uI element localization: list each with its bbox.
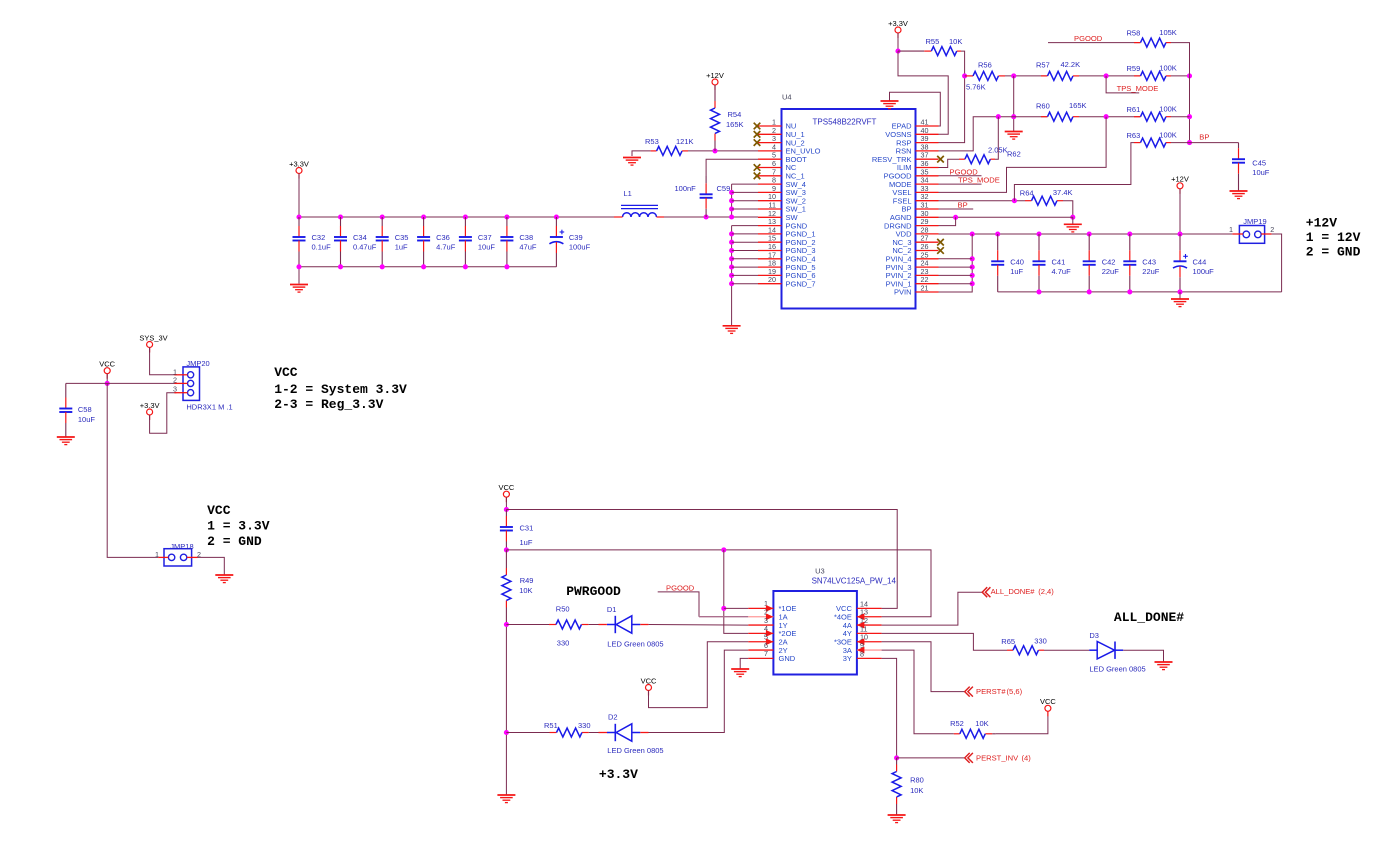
inductor L1 bbox=[614, 205, 664, 217]
svg-text:PGND_7: PGND_7 bbox=[786, 279, 816, 288]
JMP19 pin2 stub bbox=[1261, 233, 1271, 235]
wire PGND bus to pin13 bbox=[732, 225, 758, 227]
U4 pin 33 VSEL stub bbox=[916, 191, 939, 193]
U3 pin 8 3Y stub bbox=[857, 657, 882, 659]
ground (R53) bbox=[623, 158, 641, 166]
svg-text:10K: 10K bbox=[910, 786, 923, 795]
wire R58 to BP rail bbox=[1171, 43, 1190, 76]
capacitor C58 bbox=[59, 383, 72, 436]
svg-text:R62: R62 bbox=[1007, 150, 1021, 159]
U4 pin 1 NU stub bbox=[758, 125, 782, 127]
wire PWRGOOD node to R51 bbox=[506, 732, 549, 734]
svg-text:100K: 100K bbox=[1159, 131, 1177, 140]
U4 pin 26 NC_2 stub bbox=[916, 250, 939, 252]
diode D1 LED bbox=[607, 616, 640, 633]
node VDD bus/C41 bbox=[1036, 231, 1041, 236]
wire PVIN riser to pin23 bbox=[939, 274, 973, 276]
U3 pin 4 input arrow bbox=[766, 630, 774, 637]
node gnd bus x=1180 bbox=[1177, 289, 1182, 294]
svg-text:C36: C36 bbox=[436, 233, 450, 242]
ground (D3) bbox=[1155, 662, 1173, 670]
node R62 top bbox=[996, 114, 1001, 119]
wire PGND bus to pin17 bbox=[732, 258, 758, 260]
wire AGND to gnd node bbox=[939, 216, 1073, 218]
ground (R56/RSN) bbox=[1005, 132, 1023, 140]
svg-text:(2,4): (2,4) bbox=[1038, 587, 1054, 596]
svg-text:4.7uF: 4.7uF bbox=[1052, 267, 1072, 276]
ground (R64/AGND) bbox=[1064, 224, 1082, 232]
svg-text:R60: R60 bbox=[1036, 102, 1050, 111]
wire VCC down to rail bbox=[505, 497, 507, 509]
node PGND bus pin16 bbox=[729, 248, 734, 253]
no-connect X on U4 pin 2 bbox=[754, 131, 761, 138]
wire PVIN riser to pin24 bbox=[939, 266, 973, 268]
svg-text:C58: C58 bbox=[78, 405, 92, 414]
U4 pin 4 EN_UVLO stub bbox=[758, 150, 782, 152]
node PGND bus pin18 bbox=[729, 265, 734, 270]
U3 pin 13 *4OE stub bbox=[857, 616, 882, 618]
svg-text:D1: D1 bbox=[607, 605, 617, 614]
ground (R80) bbox=[888, 815, 906, 823]
svg-text:C34: C34 bbox=[353, 233, 367, 242]
wire VCC row to JMP20 pin2 bbox=[66, 382, 177, 384]
svg-text:R63: R63 bbox=[1127, 131, 1141, 140]
svg-text:100K: 100K bbox=[1159, 64, 1177, 73]
svg-text:7: 7 bbox=[764, 649, 768, 658]
U4 pin 40 VOSNS stub bbox=[916, 133, 939, 135]
svg-text:1 = 12V: 1 = 12V bbox=[1306, 230, 1361, 245]
svg-text:330: 330 bbox=[557, 639, 570, 648]
node gnd bus/C37 bottom bbox=[463, 264, 468, 269]
svg-text:PGOOD: PGOOD bbox=[1074, 34, 1103, 43]
svg-text:1: 1 bbox=[1229, 225, 1233, 234]
svg-text:TPS_MODE: TPS_MODE bbox=[1117, 84, 1159, 93]
svg-text:VCC: VCC bbox=[207, 503, 231, 518]
wire R51 to D2 bbox=[589, 732, 599, 734]
power VCC (U3 top) bbox=[498, 483, 514, 502]
wire R55 to RSP bbox=[939, 51, 965, 143]
U3 pin 1 *1OE stub bbox=[748, 607, 773, 609]
U4 pin 15 PGND_2 stub bbox=[758, 241, 782, 243]
node R57/R59/TPS_MODE bbox=[1104, 73, 1109, 78]
svg-text:C38: C38 bbox=[519, 233, 533, 242]
svg-text:100uF: 100uF bbox=[569, 243, 591, 252]
U3 pin 13 input arrow bbox=[857, 613, 865, 620]
U4 pin 13 PGND stub bbox=[758, 225, 782, 227]
ground (EPAD) bbox=[881, 101, 899, 109]
diode D3 LED bbox=[1089, 642, 1123, 659]
svg-text:42.2K: 42.2K bbox=[1061, 60, 1081, 69]
svg-text:D3: D3 bbox=[1089, 631, 1099, 640]
node PVIN riser pin23 bbox=[970, 273, 975, 278]
no-connect X on U4 pin 3 bbox=[754, 139, 761, 146]
node gnd rail/C31 bbox=[504, 547, 509, 552]
wire PWRGOOD node to R50 bbox=[506, 624, 549, 626]
svg-text:100nF: 100nF bbox=[675, 184, 697, 193]
wire OE branch to pin1/pin4 bbox=[724, 550, 749, 634]
svg-text:R80: R80 bbox=[910, 776, 924, 785]
svg-text:GND: GND bbox=[779, 654, 796, 663]
node PVIN riser pin22 bbox=[970, 281, 975, 286]
wire cap bank ground bus bbox=[299, 267, 556, 284]
node SW bus pin9 bbox=[729, 190, 734, 195]
resistor R65 bbox=[1007, 646, 1044, 655]
U4 pin 36 ILIM stub bbox=[916, 167, 939, 169]
svg-text:330: 330 bbox=[1034, 637, 1047, 646]
svg-text:4.7uF: 4.7uF bbox=[436, 243, 456, 252]
wire pin11 4Y to R65 bbox=[882, 633, 1007, 650]
node R54/EN_UVLO bbox=[712, 148, 717, 153]
wire PGND bus to pin20 bbox=[732, 283, 758, 285]
U3 pin 9 3A stub bbox=[857, 649, 882, 651]
resistor R49 bbox=[502, 550, 511, 625]
node R61/BP rail bbox=[1187, 114, 1192, 119]
U4 pin 23 PVIN_2 stub bbox=[916, 274, 939, 276]
svg-text:VCC: VCC bbox=[99, 360, 115, 369]
svg-text:0.47uF: 0.47uF bbox=[353, 243, 377, 252]
U4 pin 8 SW_4 stub bbox=[758, 183, 782, 185]
node VDD bus/PVIN riser bbox=[970, 231, 975, 236]
svg-text:21: 21 bbox=[921, 284, 929, 293]
svg-text:VCC: VCC bbox=[641, 676, 657, 685]
U3 pin 9 input arrow bbox=[857, 647, 865, 654]
svg-text:R65: R65 bbox=[1001, 637, 1015, 646]
wire DRGND to AGND bbox=[939, 217, 956, 225]
IC U4 TPS548B22RVFT body bbox=[782, 109, 916, 309]
U3 pin 2 input arrow bbox=[766, 613, 774, 620]
U4 pin 19 PGND_6 stub bbox=[758, 274, 782, 276]
wire PGND bus vertical bbox=[731, 226, 733, 326]
svg-text:C40: C40 bbox=[1010, 258, 1024, 267]
wire L1 to SW pin (U4 pin12) bbox=[664, 216, 758, 218]
wire OE rail bbox=[506, 550, 931, 617]
ground (input caps) bbox=[1171, 299, 1189, 307]
svg-text:R56: R56 bbox=[978, 61, 992, 70]
svg-text:HDR3X1 M .1: HDR3X1 M .1 bbox=[186, 403, 232, 412]
no-connect X on U4 pin 7 bbox=[754, 173, 761, 180]
svg-text:105K: 105K bbox=[1159, 28, 1177, 37]
wire SW bus vertical bbox=[731, 184, 733, 217]
U3 pin 14 VCC stub bbox=[857, 607, 882, 609]
U4 pin 41 EPAD stub bbox=[916, 125, 939, 127]
JMP20 pin3 stub bbox=[174, 392, 187, 394]
svg-text:10K: 10K bbox=[975, 719, 988, 728]
svg-text:C59: C59 bbox=[717, 184, 731, 193]
resistor R55 bbox=[898, 47, 961, 56]
svg-text:ALL_DONE#: ALL_DONE# bbox=[1114, 610, 1184, 625]
D2 anode lead bbox=[640, 732, 648, 734]
resistor R59 bbox=[1134, 71, 1171, 80]
wire SW bus to pin9 bbox=[732, 191, 758, 193]
ground (JMP18) bbox=[215, 575, 233, 583]
node R60/R61/VSEL bbox=[1104, 114, 1109, 119]
ground (LED return) bbox=[497, 795, 515, 803]
node gnd bus x=1039 bbox=[1036, 289, 1041, 294]
svg-text:JMP20: JMP20 bbox=[186, 359, 209, 368]
U4 pin 39 RSP stub bbox=[916, 142, 939, 144]
U4 pin 38 RSN stub bbox=[916, 150, 939, 152]
svg-text:LED Green 0805: LED Green 0805 bbox=[607, 640, 663, 649]
svg-text:165K: 165K bbox=[1069, 101, 1087, 110]
U3 pin 1 input arrow bbox=[766, 605, 774, 612]
node bus/C35 top bbox=[380, 214, 385, 219]
svg-text:37.4K: 37.4K bbox=[1053, 188, 1073, 197]
wire branch to pin1 bbox=[724, 607, 749, 609]
svg-text:1uF: 1uF bbox=[520, 538, 533, 547]
connector JMP18 body bbox=[164, 549, 192, 566]
wire R53 to EN_UVLO bbox=[688, 150, 758, 152]
wire EPAD to ground bbox=[890, 92, 941, 126]
U3 pin 3 1Y stub bbox=[748, 624, 773, 626]
wire pin9 3A to R52 bbox=[882, 650, 954, 734]
svg-text:121K: 121K bbox=[676, 137, 694, 146]
wire R62 to gnd row bbox=[995, 117, 998, 160]
node FSEL/R64/R63 bbox=[1012, 198, 1017, 203]
svg-text:BP: BP bbox=[1199, 132, 1209, 141]
U3 pin 6 2Y stub bbox=[748, 649, 773, 651]
capacitor C32 bbox=[293, 217, 306, 267]
U4 pin 5 BOOT stub bbox=[758, 158, 782, 160]
svg-text:R59: R59 bbox=[1127, 64, 1141, 73]
node pin1 branch bbox=[721, 606, 726, 611]
resistor R60 bbox=[1041, 112, 1079, 121]
wire PGND bus to pin14 bbox=[732, 233, 758, 235]
resistor R53 bbox=[651, 146, 688, 155]
svg-text:1uF: 1uF bbox=[395, 243, 408, 252]
svg-text:PERST#: PERST# bbox=[976, 687, 1006, 696]
U3 pin 7 GND stub bbox=[748, 657, 773, 659]
U3 pin 5 2A stub bbox=[748, 641, 773, 643]
U3 pin 5 input arrow bbox=[766, 638, 774, 645]
wire PVIN riser to pin22 bbox=[939, 283, 973, 285]
svg-text:JMP18: JMP18 bbox=[170, 542, 193, 551]
wire +3.3V to JMP20 pin3 bbox=[150, 393, 177, 434]
resistor R58 bbox=[1134, 38, 1171, 47]
svg-text:VCC: VCC bbox=[1040, 697, 1056, 706]
U4 pin 7 NC_1 stub bbox=[758, 175, 782, 177]
wire BP net label (pin31) bbox=[939, 208, 974, 210]
node bus/C34 top bbox=[338, 214, 343, 219]
connector JMP20 body bbox=[183, 367, 200, 401]
node R56/R57/gnd bbox=[1011, 73, 1016, 78]
diode D2 LED bbox=[607, 724, 640, 741]
svg-text:2-3 = Reg_3.3V: 2-3 = Reg_3.3V bbox=[274, 397, 383, 412]
wire PGOOD net label (pin35) bbox=[939, 175, 982, 177]
node SW bus pin10 bbox=[729, 198, 734, 203]
svg-text:JMP19: JMP19 bbox=[1243, 217, 1266, 226]
svg-text:+12V: +12V bbox=[1171, 175, 1189, 184]
connector JMP19 body bbox=[1239, 226, 1264, 244]
wire pin12 4A to ALL_DONE# bbox=[882, 592, 982, 625]
resistor R64 bbox=[1025, 196, 1063, 205]
wire PERST_INV net bbox=[897, 757, 965, 759]
offpage ALL_DONE# chevron bbox=[982, 587, 990, 597]
svg-text:+12V: +12V bbox=[706, 71, 724, 80]
U4 pin 17 PGND_4 stub bbox=[758, 258, 782, 260]
wire PGOOD net label (U3) bbox=[658, 592, 699, 617]
node bus/C39 top bbox=[554, 214, 559, 219]
svg-text:1-2 = System 3.3V: 1-2 = System 3.3V bbox=[274, 382, 407, 397]
svg-text:+3.3V: +3.3V bbox=[888, 19, 908, 28]
node VCC rail/C31 bbox=[504, 507, 509, 512]
wire pin10 *3OE to PERST# bbox=[882, 642, 965, 692]
node PGND bus pin17 bbox=[729, 256, 734, 261]
svg-text:1 = 3.3V: 1 = 3.3V bbox=[207, 519, 270, 534]
ground (C58) bbox=[57, 437, 75, 445]
wire RSN to gnd row bbox=[939, 117, 1048, 151]
wire input cap ground bus bbox=[998, 291, 1282, 293]
JMP18 pin2 stub bbox=[187, 556, 198, 558]
wire PGND bus to pin19 bbox=[732, 274, 758, 276]
svg-text:R58: R58 bbox=[1127, 29, 1141, 38]
wire R61 to BP rail bbox=[1171, 116, 1190, 118]
wire SYS_3V to JMP20 pin1 bbox=[150, 348, 177, 375]
node VCC/C58 bbox=[105, 381, 110, 386]
wire R59 to BP rail bbox=[1171, 75, 1190, 77]
svg-text:10K: 10K bbox=[519, 586, 532, 595]
wire R50 to D1 bbox=[589, 624, 599, 626]
JMP18 pin1 stub bbox=[158, 556, 168, 558]
node gnd bus/C36 bottom bbox=[421, 264, 426, 269]
wire PGND bus to pin16 bbox=[732, 250, 758, 252]
wire VCC to JMP18 bbox=[107, 383, 158, 557]
svg-text:20: 20 bbox=[768, 275, 776, 284]
wire VSEL to R60/R61 bbox=[939, 117, 1107, 193]
svg-text:10uF: 10uF bbox=[478, 243, 496, 252]
svg-text:C31: C31 bbox=[520, 524, 534, 533]
wire SW bus to pin10 bbox=[732, 200, 758, 202]
wire gnd stem (R64) bbox=[1072, 217, 1074, 224]
resistor R61 bbox=[1134, 112, 1171, 121]
U4 pin 6 NC stub bbox=[758, 167, 782, 169]
svg-text:1uF: 1uF bbox=[1010, 267, 1023, 276]
U3 pin 2 1A stub bbox=[748, 616, 773, 618]
svg-text:SN74LVC125A_PW_14: SN74LVC125A_PW_14 bbox=[812, 577, 897, 586]
wire SW bus to pin8 bbox=[732, 183, 758, 185]
wire R65 to D3 bbox=[1044, 649, 1089, 651]
power +12V (input) bbox=[1171, 175, 1189, 194]
svg-text:R61: R61 bbox=[1127, 105, 1141, 114]
offpage PERST# chevron bbox=[965, 687, 973, 697]
wire D2 to pin6 2Y bbox=[649, 650, 749, 732]
wire VCC rail to pin14 bbox=[506, 510, 897, 609]
resistor R51 bbox=[550, 728, 589, 737]
U4 pin 30 AGND stub bbox=[916, 216, 939, 218]
no-connect X on U4 pin 37 RESV_TRK bbox=[937, 156, 944, 163]
wire VCC down bbox=[106, 374, 108, 384]
svg-text:TPS_MODE: TPS_MODE bbox=[958, 176, 1000, 185]
svg-text:R49: R49 bbox=[520, 576, 534, 585]
wire D1 to pin3 1Y bbox=[649, 624, 749, 627]
offpage PERST_INV chevron bbox=[965, 753, 973, 763]
svg-text:2 = GND: 2 = GND bbox=[1306, 245, 1361, 260]
node R50 row bbox=[504, 622, 509, 627]
svg-text:U3: U3 bbox=[815, 567, 825, 576]
resistor R63 bbox=[1134, 138, 1171, 147]
node SW bus / 100nF cap bbox=[704, 214, 709, 219]
U4 pin 16 PGND_3 stub bbox=[758, 250, 782, 252]
svg-text:LED Green 0805: LED Green 0805 bbox=[1089, 665, 1145, 674]
svg-text:C37: C37 bbox=[478, 233, 492, 242]
resistor R52 bbox=[954, 729, 996, 738]
resistor R57 bbox=[1041, 71, 1079, 80]
U4 pin 12 SW stub bbox=[758, 216, 782, 218]
U3 pin 4 *2OE stub bbox=[748, 632, 773, 634]
node PGND bus pin19 bbox=[729, 273, 734, 278]
ground (C45) bbox=[1230, 191, 1248, 199]
svg-text:22uF: 22uF bbox=[1102, 267, 1120, 276]
svg-text:+12V: +12V bbox=[1306, 216, 1337, 231]
U4 pin 9 SW_3 stub bbox=[758, 191, 782, 193]
JMP20 pin1 stub bbox=[174, 374, 187, 376]
svg-text:0.1uF: 0.1uF bbox=[312, 243, 332, 252]
U4 pin 2 NU_1 stub bbox=[758, 133, 782, 135]
svg-text:C44: C44 bbox=[1193, 258, 1207, 267]
wire PGOOD net bbox=[1048, 42, 1141, 44]
capacitor C59 100nF bbox=[700, 176, 713, 217]
wire PWRGOOD rail down bbox=[505, 625, 507, 795]
U4 pin 31 BP stub bbox=[916, 208, 939, 210]
svg-text:C43: C43 bbox=[1142, 258, 1156, 267]
node bus/C38 top bbox=[504, 214, 509, 219]
svg-text:10K: 10K bbox=[949, 37, 962, 46]
U4 pin 25 PVIN_4 stub bbox=[916, 258, 939, 260]
wire +3.3V to bus bbox=[298, 174, 300, 218]
power SYS_3V bbox=[139, 333, 167, 352]
wire R64 to AGND gnd bbox=[1063, 201, 1073, 218]
D1 anode lead bbox=[640, 624, 648, 626]
ground (PGND bus below U4) bbox=[723, 326, 741, 334]
wire FSEL to R64 bbox=[939, 200, 1026, 202]
wire VDD bus bbox=[939, 233, 1233, 235]
U4 pin 29 DRGND stub bbox=[916, 225, 939, 227]
wire pin8 3Y down bbox=[882, 658, 897, 758]
wire R60 to R61 bbox=[1079, 116, 1141, 118]
node gnd bus/C38 bottom bbox=[504, 264, 509, 269]
wire TPS_MODE net label (pin34) bbox=[939, 183, 982, 185]
capacitor C39 bbox=[549, 217, 564, 267]
power +3.3V (cap bank) bbox=[289, 159, 309, 178]
node SW bus pin12 bbox=[729, 214, 734, 219]
capacitor C34 bbox=[334, 217, 347, 267]
svg-text:2: 2 bbox=[1270, 225, 1274, 234]
wire node down to gnd row bbox=[1013, 76, 1015, 131]
wire pin7 GND to ground bbox=[740, 658, 748, 668]
svg-text:47uF: 47uF bbox=[519, 243, 537, 252]
node OE rail/pin1 branch bbox=[721, 547, 726, 552]
svg-text:+3.3V: +3.3V bbox=[140, 401, 160, 410]
node VDD bus/+12V/C44 bbox=[1177, 231, 1182, 236]
svg-text:(5,6): (5,6) bbox=[1007, 687, 1023, 696]
resistor R80 bbox=[892, 758, 901, 815]
power +12V (R54) bbox=[706, 71, 724, 90]
svg-text:3: 3 bbox=[173, 385, 177, 394]
wire PVIN riser bbox=[939, 234, 973, 292]
wire PVIN riser to pin25 bbox=[939, 258, 973, 260]
wire D3 to gnd bbox=[1123, 650, 1163, 662]
no-connect X on U4 pin 1 bbox=[754, 123, 761, 130]
U4 pin 32 FSEL stub bbox=[916, 200, 939, 202]
U4 pin 21 PVIN stub bbox=[916, 291, 939, 293]
U3 pin 10 input arrow bbox=[857, 638, 865, 645]
wire JMP18 pin2 to gnd bbox=[198, 557, 225, 575]
resistor R50 bbox=[549, 620, 589, 629]
svg-text:R55: R55 bbox=[926, 37, 940, 46]
svg-text:C32: C32 bbox=[312, 233, 326, 242]
node R59/BP rail bbox=[1187, 73, 1192, 78]
wire ILIM to R62 bbox=[939, 159, 960, 167]
resistor R56 bbox=[965, 71, 1005, 80]
